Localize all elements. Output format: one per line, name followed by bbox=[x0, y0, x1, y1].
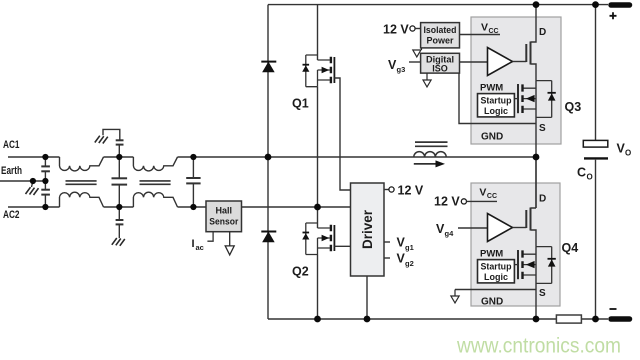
svg-text:Startup: Startup bbox=[481, 262, 512, 272]
node Q2 source on bottom bus bbox=[314, 316, 321, 323]
node AC1 left bus bbox=[265, 154, 272, 161]
svg-text:S: S bbox=[539, 123, 546, 134]
svg-text:www.cntronics.com: www.cntronics.com bbox=[456, 335, 621, 358]
wire Q2 drain from AC2 node bbox=[317, 207, 319, 228]
wire top bus bbox=[268, 4, 608, 6]
svg-text:Sensor: Sensor bbox=[209, 217, 238, 227]
svg-text:D: D bbox=[539, 27, 546, 38]
svg-text:PWM: PWM bbox=[480, 83, 503, 94]
IC panel U1 (Q3 gate driver, shaded) bbox=[471, 17, 561, 144]
svg-text:GND: GND bbox=[481, 297, 503, 308]
resistor R1 (current shunt) bbox=[556, 315, 581, 323]
svg-text:CC: CC bbox=[487, 193, 497, 200]
wire U2 GND rail bbox=[455, 289, 536, 291]
wire AC2 between chokes bbox=[104, 206, 134, 208]
wire AC1 input bbox=[8, 156, 60, 158]
wire bottom bus bbox=[268, 318, 608, 320]
capacitor Co bbox=[583, 140, 608, 158]
wire Q1 drain to top bus bbox=[317, 5, 319, 60]
wire Earth input bbox=[0, 180, 45, 182]
svg-text:12 V: 12 V bbox=[434, 195, 460, 209]
wire output rail right bbox=[595, 5, 597, 319]
wire Q2 source down to bottom bus bbox=[317, 255, 319, 320]
svg-text:12 V: 12 V bbox=[398, 184, 424, 198]
wire Vg4 into U2 buffer bbox=[458, 227, 488, 229]
capacitor CY3 (top, to earth) bbox=[103, 129, 124, 157]
svg-text:g2: g2 bbox=[405, 259, 414, 268]
ground arrow U2 bbox=[451, 290, 459, 303]
svg-text:Earth: Earth bbox=[1, 165, 22, 177]
capacitor CY1 (AC1-Earth) bbox=[41, 157, 50, 181]
IC panel U2 (Q4 gate driver, shaded) bbox=[471, 183, 560, 306]
svg-text:Q1: Q1 bbox=[292, 97, 309, 111]
Digital ISO box bbox=[409, 53, 460, 73]
wire 12V into U2 bbox=[467, 200, 498, 202]
node Earth ground tap bbox=[30, 178, 36, 184]
wire Q4 source to bottom bus bbox=[535, 290, 537, 320]
terminal circle 12V iso bbox=[410, 26, 415, 31]
svg-text:I: I bbox=[192, 238, 195, 250]
svg-text:g1: g1 bbox=[405, 243, 414, 252]
transistor Q2 bbox=[302, 223, 334, 255]
inductor L3 (boost inductor) bbox=[414, 142, 448, 157]
wire AC2 to driver bbox=[178, 206, 351, 208]
svg-text:AC2: AC2 bbox=[3, 209, 20, 221]
node output+ on top bus bbox=[592, 1, 599, 8]
svg-text:Logic: Logic bbox=[484, 106, 508, 116]
wire Q3 source to midpoint node bbox=[535, 124, 537, 158]
common-mode choke L2 winding B bbox=[133, 192, 177, 207]
svg-text:Q2: Q2 bbox=[292, 265, 309, 279]
svg-text:PWM: PWM bbox=[480, 249, 503, 260]
svg-text:ISO: ISO bbox=[432, 64, 448, 74]
transistor Q1 bbox=[302, 55, 334, 87]
svg-text:g3: g3 bbox=[397, 65, 406, 74]
svg-text:C: C bbox=[577, 166, 586, 180]
driver pin Vg1 bbox=[384, 236, 414, 253]
wire U1 GND rail bbox=[459, 73, 536, 123]
node output- on bottom bus bbox=[592, 316, 599, 323]
ground (earth) top center bbox=[95, 136, 108, 144]
common-mode choke L1 core bbox=[66, 181, 97, 184]
diode D2 (left bus lower) bbox=[261, 232, 276, 242]
node AC1-CX2 bbox=[190, 154, 196, 160]
svg-text:S: S bbox=[539, 288, 546, 299]
svg-text:Isolated: Isolated bbox=[424, 25, 457, 35]
current direction arrow into L3 bbox=[414, 160, 445, 167]
svg-text:Hall: Hall bbox=[216, 206, 233, 216]
svg-text:Logic: Logic bbox=[484, 272, 508, 282]
capacitor CX2 (after second choke) bbox=[186, 157, 200, 207]
ground arrow below Isolated Power bbox=[413, 48, 422, 57]
power MOSFET Q4 bbox=[514, 247, 555, 290]
driver pin Vg2 bbox=[384, 252, 414, 269]
wire AC2 input bbox=[8, 206, 60, 208]
node AC2-CX2 bbox=[190, 204, 196, 210]
node driver GND on bottom bus bbox=[364, 316, 371, 323]
capacitor CX1 (between chokes) bbox=[112, 157, 128, 207]
terminal circle 12V U2 bbox=[461, 199, 466, 204]
Driver box U5 bbox=[351, 183, 385, 276]
wire Q1 source down to AC2 node bbox=[317, 87, 319, 207]
svg-text:V: V bbox=[481, 22, 488, 34]
common-mode choke L1 winding A bbox=[60, 157, 104, 171]
node Q3/Q4 midpoint bbox=[533, 154, 540, 161]
diode D1 (left bus upper) bbox=[261, 62, 276, 72]
ground arrow below Digital ISO bbox=[423, 73, 431, 87]
svg-text:V: V bbox=[479, 187, 486, 199]
svg-text:Startup: Startup bbox=[481, 96, 512, 106]
wire Vg3 signal into U1 buffer bbox=[460, 61, 488, 63]
wire Q4 drain from midpoint node bbox=[535, 157, 537, 208]
label Co bbox=[577, 166, 593, 182]
Hall Sensor box bbox=[206, 201, 242, 232]
label Vg4 bbox=[436, 222, 454, 238]
node Earth-CY junction bbox=[42, 178, 48, 184]
capacitor CY2 (Earth-AC2) bbox=[41, 181, 50, 207]
U2 upper FET (gate drive) bbox=[513, 157, 537, 247]
U1 upper FET (gate drive) bbox=[513, 5, 537, 81]
Isolated Power box bbox=[415, 23, 459, 48]
label Vcc (U1) bbox=[481, 22, 499, 36]
svg-text:Power: Power bbox=[426, 36, 454, 46]
common-mode choke L2 core bbox=[140, 181, 171, 184]
node AC1-CX1 bbox=[116, 154, 122, 160]
svg-text:D: D bbox=[539, 194, 546, 205]
Startup Logic box (U2) bbox=[478, 260, 515, 283]
svg-text:12 V: 12 V bbox=[383, 23, 409, 37]
power MOSFET Q3 bbox=[514, 81, 555, 124]
node AC2-CY2 bbox=[42, 204, 48, 210]
svg-text:O: O bbox=[625, 149, 631, 158]
svg-text:O: O bbox=[587, 173, 593, 182]
driver 12V output terminal bbox=[384, 184, 424, 198]
Hall sensor pin to signal ground arrow bbox=[225, 232, 234, 255]
output - terminal bbox=[610, 309, 630, 319]
svg-text:g4: g4 bbox=[445, 229, 455, 238]
svg-text:Q3: Q3 bbox=[565, 100, 582, 114]
Startup Logic box (U1) bbox=[478, 94, 515, 117]
node Q4 source on bottom bus bbox=[533, 316, 540, 323]
common-mode choke L1 winding B bbox=[60, 192, 104, 207]
wire Vcc into U1 bbox=[460, 34, 501, 36]
wire AC1 between chokes bbox=[104, 156, 134, 158]
ground (earth) bottom center bbox=[112, 238, 125, 246]
output + terminal bbox=[610, 5, 630, 19]
wire left bus vertical bbox=[267, 5, 269, 319]
node AC2 totem midpoint bbox=[314, 204, 321, 211]
label Vo bbox=[617, 142, 632, 158]
common-mode choke L2 winding A bbox=[133, 157, 177, 171]
buffer amplifier U2 bbox=[488, 214, 513, 242]
node AC2-CX1 bbox=[116, 204, 122, 210]
capacitor CY4 (bottom, to earth) bbox=[116, 207, 124, 238]
svg-text:Driver: Driver bbox=[360, 209, 375, 249]
svg-text:Q4: Q4 bbox=[562, 241, 579, 255]
svg-text:GND: GND bbox=[481, 132, 503, 143]
wire driver GND to bottom bus bbox=[366, 276, 368, 319]
wire Q2 gate to driver bbox=[334, 245, 350, 247]
label Vg3 bbox=[388, 58, 405, 74]
svg-text:AC1: AC1 bbox=[3, 139, 20, 151]
node AC1-CY1 bbox=[42, 154, 48, 160]
buffer amplifier U1 bbox=[488, 48, 513, 76]
ground (earth) at Earth input bbox=[26, 181, 39, 195]
label Vcc (U2) bbox=[479, 187, 497, 201]
Hall sensor pin Iac bbox=[207, 232, 213, 242]
wire Q1 gate to driver bbox=[334, 78, 350, 190]
node Q3 drain on top bus bbox=[533, 1, 540, 8]
wire AC1 midpoint to Q3/Q4 node bbox=[178, 156, 537, 158]
svg-text:ac: ac bbox=[196, 243, 204, 252]
